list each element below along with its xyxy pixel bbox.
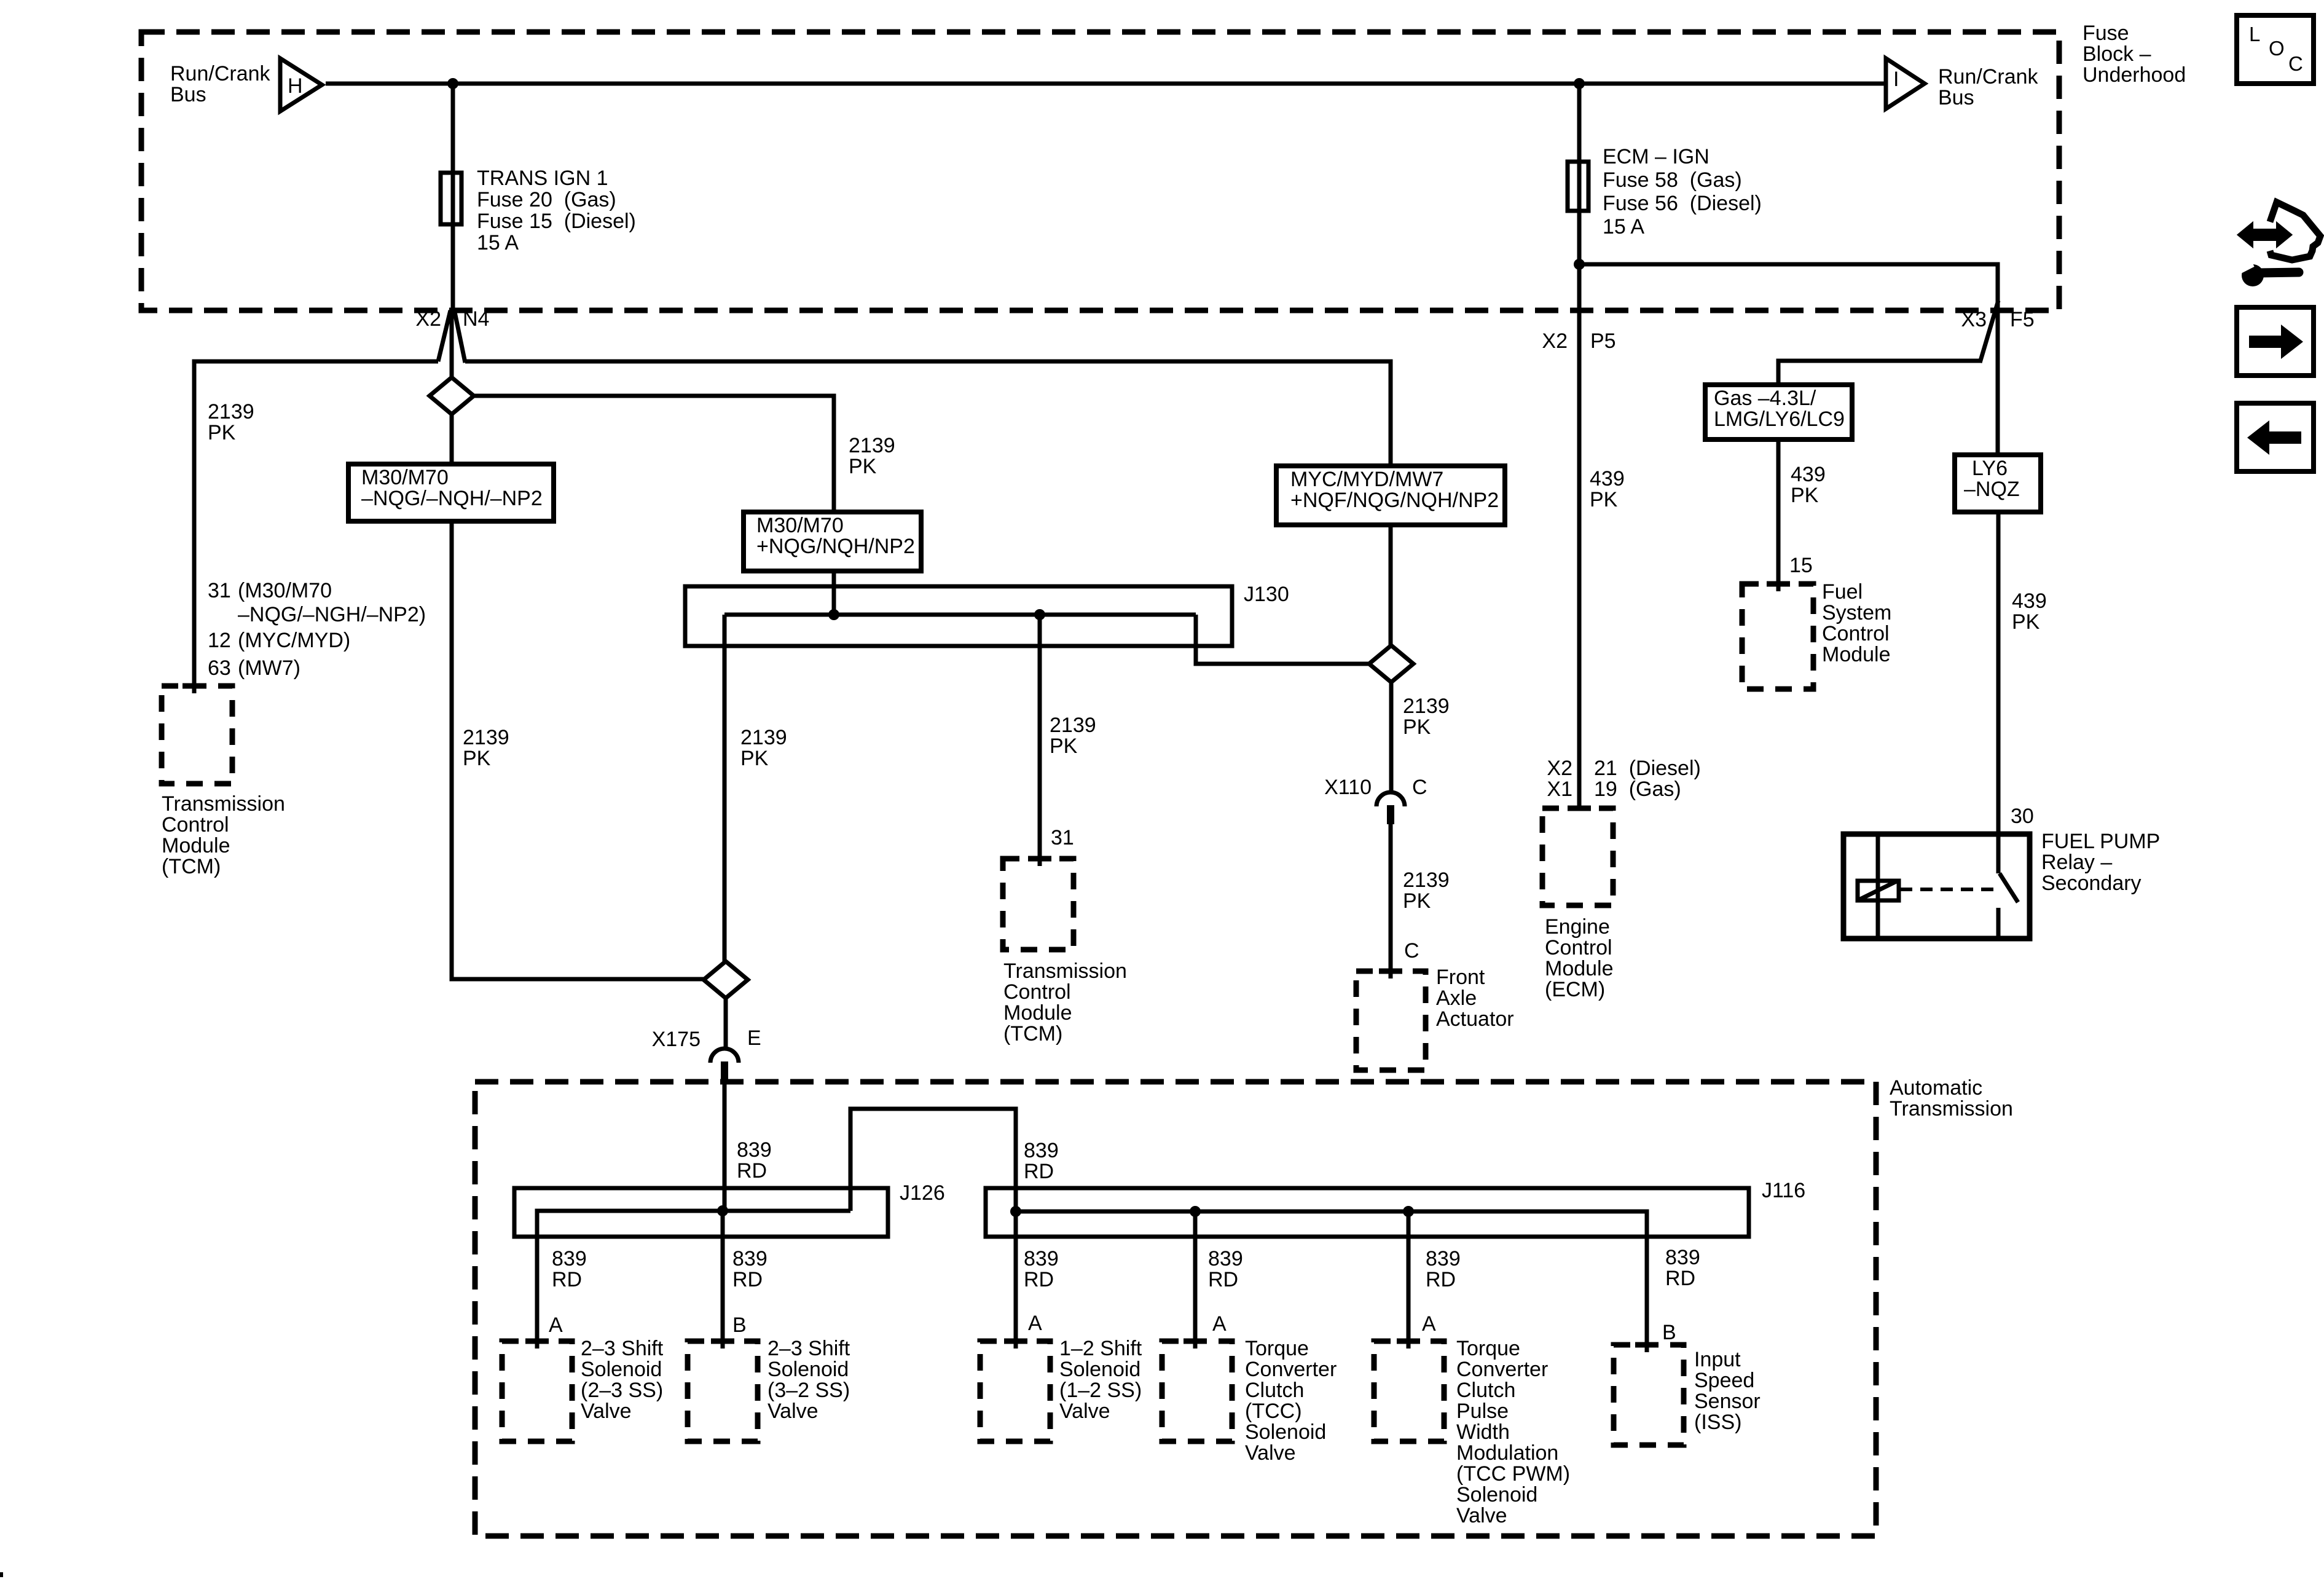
fuse F TRANS IGN 1 [441,173,461,224]
wire: diamond S1 down to -NQG box [450,414,454,464]
svg-text:J130: J130 [1244,583,1289,606]
automatic transmission dashed box [475,1082,1876,1536]
svg-text:Fuse 56 (Diesel): Fuse 56 (Diesel) [1603,192,1762,215]
wire: LY6 box to relay [1996,512,2001,873]
svg-text:Underhood: Underhood [2083,63,2186,87]
svg-text:M30/M70: M30/M70 [756,514,844,537]
wire: S3 down to X110 [1389,682,1394,792]
svg-text:(2–3 SS): (2–3 SS) [581,1379,663,1402]
svg-text:30: 30 [2011,805,2034,828]
svg-text:2139: 2139 [208,400,254,423]
svg-text:PK: PK [1403,715,1431,739]
svg-text:–NQZ: –NQZ [1964,478,2020,501]
svg-text:Solenoid: Solenoid [1245,1420,1326,1444]
svg-text:RD: RD [1426,1268,1456,1291]
svg-text:Valve: Valve [1245,1441,1296,1465]
svg-text:Converter: Converter [1245,1358,1337,1381]
node: J130 dot 2 [1034,609,1045,620]
off-page connector I triangle [1886,58,1925,109]
svg-text:2139: 2139 [1403,868,1450,892]
wire: J116 exit 3 to TCC PWM solenoid [1407,1211,1411,1349]
relay switch blade [2000,873,2018,902]
svg-text:Run/Crank: Run/Crank [170,62,271,85]
svg-text:Module: Module [1003,1001,1072,1025]
svg-text:Fuse 15 (Diesel): Fuse 15 (Diesel) [477,210,636,233]
svg-text:PK: PK [1590,488,1618,511]
svg-text:439: 439 [1791,463,1826,486]
module Fuel System Control Module dashed box [1742,584,1813,689]
splice pack J130 enclosure [685,586,1232,646]
svg-text:PK: PK [208,421,236,444]
svg-text:M30/M70: M30/M70 [361,466,449,489]
svg-text:839: 839 [1024,1139,1059,1162]
svg-text:(MYC/MYD): (MYC/MYD) [238,629,350,652]
svg-text:System: System [1822,601,1891,624]
wire: J130 mid exit to TCM 31 [1038,615,1042,866]
wire: left branch to TCM [194,361,438,693]
wire: S2 down to X175 [724,998,728,1049]
svg-text:J116: J116 [1762,1179,1805,1202]
svg-text:1–2 Shift: 1–2 Shift [1059,1337,1142,1360]
svg-text:Control: Control [1003,980,1071,1004]
splice diamond S1 [430,377,474,414]
node: bus junction at trans ign fuse [447,78,458,89]
svg-text:Gas –4.3L/: Gas –4.3L/ [1714,387,1816,410]
svg-text:–NQG/–NGH/–NP2): –NQG/–NGH/–NP2) [238,603,426,626]
svg-text:839: 839 [1024,1247,1059,1270]
svg-text:(TCC): (TCC) [1245,1400,1302,1423]
node: junction below ECM fuse [1574,259,1585,270]
svg-text:Control: Control [1822,622,1890,645]
svg-text:Converter: Converter [1456,1358,1548,1381]
svg-text:+NQG/NQH/NP2: +NQG/NQH/NP2 [756,535,915,558]
svg-text:Solenoid: Solenoid [767,1358,849,1381]
svg-text:X2: X2 [415,307,441,331]
svg-text:+NQF/NQG/NQH/NP2: +NQF/NQG/NQH/NP2 [1290,489,1499,512]
svg-text:A: A [549,1313,563,1337]
svg-text:839: 839 [737,1138,772,1162]
relay coil [1858,881,1899,900]
svg-text:Fuse 58 (Gas): Fuse 58 (Gas) [1603,168,1742,192]
svg-text:439: 439 [2012,589,2047,613]
svg-text:A: A [1028,1312,1042,1335]
svg-text:RD: RD [1665,1267,1695,1290]
svg-text:PK: PK [463,747,491,770]
svg-text:N4: N4 [463,307,489,331]
svg-text:Control: Control [1545,936,1612,959]
module box Gas -4.3L/LMG/LY6/LC9 [1705,385,1852,439]
svg-text:Sensor: Sensor [1694,1390,1761,1413]
module Front Axle Actuator dashed box [1356,971,1426,1070]
svg-text:2139: 2139 [463,726,509,749]
node: J116 dot 1 [1010,1206,1021,1217]
svg-text:Solenoid: Solenoid [581,1358,662,1381]
icon car with double arrow and wrench [2270,202,2320,260]
wire: J130 right exit to diamond S3 [1196,615,1370,664]
wire: bridge J126 to J116 [850,1109,1016,1211]
node: J116 dot 3 [1403,1206,1414,1217]
svg-text:RD: RD [1024,1160,1054,1183]
svg-text:Relay –: Relay – [2041,851,2112,874]
svg-text:Clutch: Clutch [1456,1379,1515,1402]
svg-text:(ECM): (ECM) [1545,978,1605,1001]
svg-text:Axle: Axle [1436,986,1477,1010]
svg-text:ECM – IGN: ECM – IGN [1603,145,1710,168]
svg-text:Valve: Valve [767,1400,819,1423]
wire: trans ign fuse vertical [451,84,455,310]
svg-text:15: 15 [1789,554,1813,577]
svg-text:L: L [2249,23,2260,45]
module box M30/M70 -NQG/-NQH/-NP2 [348,464,554,521]
module TCM dashed box left [162,686,232,784]
wire: run/crank bus horizontal [326,82,1884,86]
module TCC Solenoid dashed box [1162,1341,1232,1441]
connector X2/N4 tent [438,310,450,361]
svg-text:Fuel: Fuel [1822,580,1863,604]
svg-text:(M30/M70: (M30/M70 [238,579,332,602]
wire: -NQG box down long vertical [452,521,704,979]
splice pack J116 enclosure [986,1188,1749,1237]
svg-text:Valve: Valve [1456,1504,1507,1527]
svg-text:Width: Width [1456,1420,1510,1444]
svg-text:(TCC PWM): (TCC PWM) [1456,1462,1570,1486]
fuse block underhood dashed box [141,32,2059,310]
wire: +NQG box to J130 [832,571,836,615]
svg-text:–NQG/–NQH/–NP2: –NQG/–NQH/–NP2 [361,487,543,510]
svg-text:Solenoid: Solenoid [1456,1483,1537,1506]
svg-text:A: A [1212,1312,1227,1336]
svg-text:F5: F5 [2010,308,2035,331]
svg-text:(TCM): (TCM) [162,855,221,878]
wire: J116 exit 1 to 1-2 shift solenoid [1014,1211,1018,1349]
relay switch lower contact [1996,908,2001,939]
svg-text:(ISS): (ISS) [1694,1411,1741,1434]
svg-text:Valve: Valve [1059,1400,1110,1423]
svg-text:839: 839 [1208,1247,1243,1270]
svg-text:X2: X2 [1547,757,1572,780]
wire: J116 internal bus [1016,1211,1647,1352]
svg-text:Torque: Torque [1456,1337,1520,1360]
svg-text:Solenoid: Solenoid [1059,1358,1140,1381]
wire: branch to gas fuel system [1778,361,1981,385]
svg-text:Fuse: Fuse [2083,22,2129,45]
svg-text:B: B [1662,1321,1676,1344]
module 3-2 Shift Solenoid dashed box [688,1341,758,1441]
wire: J130 left exit down [723,615,727,961]
svg-text:X2: X2 [1542,329,1568,353]
svg-text:839: 839 [1665,1246,1700,1269]
svg-text:Module: Module [1822,643,1891,666]
svg-text:X3: X3 [1961,308,1987,331]
icon wrench [2242,264,2264,286]
icon double arrow [2239,224,2291,246]
module box M30/M70 +NQG/NQH/NP2 [744,512,921,571]
wire: right branch to MYC box [465,361,1391,466]
module box LY6 -NQZ [1955,455,2041,512]
svg-text:2139: 2139 [740,726,787,749]
svg-text:I: I [1893,68,1899,91]
splice diamond S3 [1369,645,1413,682]
svg-text:Pulse: Pulse [1456,1400,1509,1423]
svg-text:Module: Module [1545,957,1614,980]
module box MYC/MYD/MW7 +NQF/NQG/NQH/NP2 [1276,466,1505,525]
svg-text:X175: X175 [652,1028,701,1051]
wire: branch to fuel pump relay feed [1579,264,1998,455]
svg-text:E: E [747,1026,761,1050]
svg-text:B: B [732,1313,747,1337]
wire: J116 exit 2 to TCC solenoid [1193,1211,1198,1349]
svg-text:RD: RD [737,1159,767,1183]
svg-text:(1–2 SS): (1–2 SS) [1059,1379,1142,1402]
wire: MYC box down to diamond S3 [1389,525,1393,645]
svg-text:19 (Gas): 19 (Gas) [1594,778,1681,801]
svg-text:LY6: LY6 [1972,457,2008,480]
svg-text:Run/Crank: Run/Crank [1938,65,2039,89]
wire: diamond S1 to +NQG box [474,396,834,512]
svg-text:(MW7): (MW7) [238,656,300,680]
svg-text:Bus: Bus [1938,86,1974,109]
svg-text:C: C [1412,776,1427,799]
svg-text:O: O [2269,37,2285,60]
relay internal divider [1876,834,1880,939]
off-page connector H triangle [280,58,322,111]
svg-text:FUEL PUMP: FUEL PUMP [2041,830,2160,853]
svg-text:Block –: Block – [2083,42,2151,66]
module TCC PWM Solenoid dashed box [1374,1341,1444,1441]
svg-text:15 A: 15 A [1603,215,1644,238]
svg-text:439: 439 [1590,467,1625,490]
svg-text:2–3 Shift: 2–3 Shift [767,1337,850,1360]
svg-text:C: C [1404,939,1419,963]
wire: J130 internal bus [724,613,1196,617]
node: J116 dot 2 [1190,1206,1201,1217]
svg-text:PK: PK [1050,734,1078,758]
wire: X110 to front axle actuator [1389,824,1393,979]
svg-text:Module: Module [162,834,230,857]
svg-text:PK: PK [740,747,769,770]
svg-text:Transmission: Transmission [162,792,285,816]
svg-text:A: A [1422,1312,1436,1336]
module Input Speed Sensor dashed box [1614,1345,1684,1445]
svg-text:2139: 2139 [1050,714,1096,737]
svg-text:Fuse 20 (Gas): Fuse 20 (Gas) [477,188,616,211]
svg-text:Automatic: Automatic [1890,1076,1982,1100]
svg-text:839: 839 [732,1247,767,1270]
fuse F ECM - IGN [1568,162,1588,211]
node: J130 dot 1 [828,609,839,620]
svg-text:2–3 Shift: 2–3 Shift [581,1337,664,1360]
svg-text:LMG/LY6/LC9: LMG/LY6/LC9 [1714,408,1845,431]
svg-text:Torque: Torque [1245,1337,1309,1360]
svg-text:2139: 2139 [1403,695,1450,718]
node: J126 dot [717,1205,728,1216]
icon left arrow box [2237,403,2314,471]
svg-text:Bus: Bus [170,83,206,106]
svg-text:Input: Input [1694,1348,1741,1371]
splice diamond S2 [704,961,748,998]
module 1-2 Shift Solenoid dashed box [980,1341,1050,1441]
svg-text:RD: RD [552,1268,582,1291]
svg-text:(TCM): (TCM) [1003,1022,1062,1045]
svg-text:Valve: Valve [581,1400,632,1423]
svg-text:Transmission: Transmission [1890,1097,2013,1120]
svg-text:12: 12 [208,629,231,652]
svg-text:839: 839 [1426,1247,1461,1270]
connector X175 pin stub [721,1061,728,1079]
svg-text:31: 31 [208,579,231,602]
node: bus junction at ecm fuse [1574,78,1585,89]
page corner mark [0,1572,3,1577]
splice pack J126 enclosure [514,1188,888,1237]
svg-text:RD: RD [732,1268,763,1291]
connector X110 arc [1376,792,1405,806]
svg-text:X110: X110 [1324,776,1372,799]
wire: X175 into transmission to J126 [723,1078,727,1211]
svg-text:TRANS IGN 1: TRANS IGN 1 [477,167,608,190]
connector X175 arc [710,1049,739,1063]
svg-text:PK: PK [1403,889,1431,913]
wire: stub through X2/N4 [450,309,454,377]
svg-text:(3–2 SS): (3–2 SS) [767,1379,850,1402]
svg-text:839: 839 [552,1247,587,1270]
module ECM dashed box [1542,808,1613,905]
svg-text:Control: Control [162,813,229,837]
svg-text:PK: PK [2012,610,2040,634]
svg-text:Secondary: Secondary [2041,872,2141,895]
svg-text:21 (Diesel): 21 (Diesel) [1594,757,1701,780]
svg-text:Speed: Speed [1694,1369,1754,1392]
icon right arrow box [2237,307,2314,376]
svg-text:RD: RD [1208,1268,1238,1291]
connector X110 pin stub [1387,805,1394,824]
module 2-3 Shift Solenoid dashed box [502,1341,572,1441]
connector X3/F5 slash [1980,301,1998,363]
svg-text:Transmission: Transmission [1003,959,1127,983]
module TCM dashed box right [1003,859,1074,950]
svg-text:Actuator: Actuator [1436,1007,1514,1031]
svg-text:P5: P5 [1590,329,1616,353]
icon LOC box [2237,15,2314,84]
svg-text:Clutch: Clutch [1245,1379,1304,1402]
wire: J126 mid exit to 3-2 shift solenoid [721,1211,725,1349]
wire: ecm ign fuse vertical down to ECM [1577,84,1582,808]
wire: J126 internal bus [537,1211,850,1349]
svg-text:J126: J126 [900,1181,945,1205]
svg-text:Modulation: Modulation [1456,1441,1558,1465]
wire: gas box to FSCM [1776,439,1781,591]
relay K Fuel Pump Relay - Secondary box [1843,834,2030,939]
svg-text:31: 31 [1051,826,1074,849]
svg-text:63: 63 [208,656,231,680]
svg-text:PK: PK [849,455,877,478]
svg-text:X1: X1 [1547,778,1572,801]
svg-text:Front: Front [1436,966,1485,989]
svg-text:RD: RD [1024,1268,1054,1291]
svg-text:2139: 2139 [849,434,895,457]
svg-text:H: H [288,74,303,98]
svg-text:PK: PK [1791,484,1819,507]
svg-text:MYC/MYD/MW7: MYC/MYD/MW7 [1290,468,1443,491]
svg-text:C: C [2288,52,2303,75]
relay coil-switch dashed link [1900,888,1995,891]
svg-text:15 A: 15 A [477,231,519,254]
svg-text:Engine: Engine [1545,915,1610,939]
